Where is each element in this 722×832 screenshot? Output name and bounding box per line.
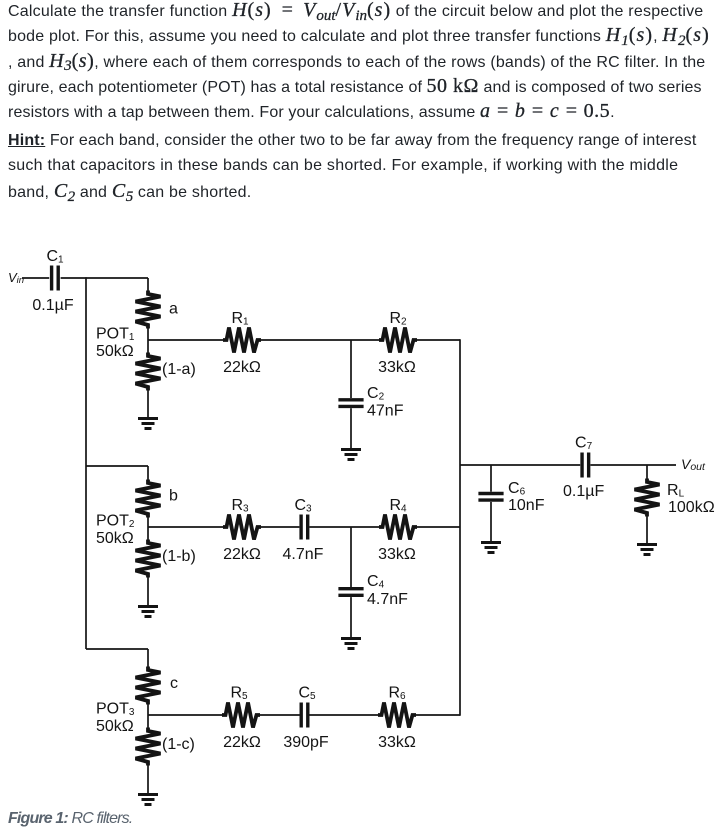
svg-text:33kΩ: 33kΩ [378,734,416,751]
resistor R6 [378,703,416,728]
paragraph 1 line 2 [8,25,710,47]
svg-text:Vin: Vin [8,270,24,286]
wire R5 to C5 [259,714,300,716]
wire band3 tap to R5 [148,714,223,716]
resistor RL [635,479,660,517]
resistor R5 [222,703,260,728]
wire branch to POT2 [86,465,148,467]
wire bus to C7 [460,464,580,466]
svg-text:50kΩ: 50kΩ [96,530,134,547]
svg-text:50kΩ: 50kΩ [96,718,134,735]
wire C6 to ground [490,502,492,541]
wire C4 to ground [350,597,352,637]
wire POT2 top lead [147,466,149,480]
ground C2 [341,450,361,460]
svg-text:10nF: 10nF [508,497,545,514]
ground C4 [341,639,361,649]
resistor R1 [223,328,261,353]
svg-text:C2: C2 [367,385,385,403]
svg-text:a: a [169,301,178,318]
wire POT1 tap segment [147,328,149,353]
wire band1 tap to R1 [148,339,224,341]
svg-text:RL: RL [667,482,685,500]
svg-text:C4: C4 [367,573,385,591]
potentiometer POT2 lower section (1-b) [136,540,161,578]
svg-text:33kΩ: 33kΩ [378,359,416,376]
svg-text:(1-a): (1-a) [162,361,196,378]
svg-text:47nF: 47nF [367,403,404,420]
svg-text:Vout: Vout [681,456,706,473]
svg-text:0.1µF: 0.1µF [32,297,73,314]
resistor R4 [379,515,417,540]
wire right bus [459,339,461,716]
paragraph 1 line 4 [8,76,702,98]
potentiometer POT1 upper section (a) [136,291,161,329]
wire left bus [85,277,87,649]
svg-text:POT1: POT1 [96,326,135,344]
svg-text:C3: C3 [294,497,312,515]
svg-text:(1-c): (1-c) [162,736,195,753]
hint line 2 [8,156,678,176]
wire C7 to Vout [591,464,677,466]
wire R4 to right bus [416,526,460,528]
svg-text:33kΩ: 33kΩ [378,546,416,563]
wire POT1 top lead [147,278,149,291]
svg-text:0.1µF: 0.1µF [563,483,604,500]
svg-text:C7: C7 [575,435,593,453]
wire RL top lead [646,465,648,479]
wire branch to POT3 [86,648,148,650]
svg-text:R6: R6 [388,685,406,703]
ground POT1 [138,419,158,429]
svg-text:50kΩ: 50kΩ [96,343,134,360]
wire POT2 tap segment [147,517,149,540]
wire R3 to C3 [260,526,299,528]
svg-text:b: b [169,488,178,505]
capacitor C3 [301,515,308,540]
svg-text:22kΩ: 22kΩ [223,546,261,563]
svg-text:POT2: POT2 [96,513,135,531]
wire C4 branch [350,527,352,587]
paragraph 1 line 1 [8,0,703,22]
ground C6 [481,543,501,553]
svg-text:C5: C5 [298,685,316,703]
capacitor C6 [478,494,503,501]
svg-text:C6: C6 [508,480,526,498]
svg-text:R3: R3 [231,497,249,515]
wire C2 to ground [350,408,352,448]
wire C6 branch [490,465,492,492]
wire C3 to R4 (node C4) [309,526,380,528]
ground POT3 [138,795,158,805]
wire POT2 ground lead [147,577,149,605]
svg-text:POT3: POT3 [96,701,135,719]
svg-text:4.7nF: 4.7nF [367,591,408,608]
capacitor C4 [338,589,363,596]
wire POT3 top lead [147,649,149,667]
svg-text:R1: R1 [231,310,249,328]
svg-text:R5: R5 [230,685,248,703]
wire C1 to POT1 top (node after C1) [61,277,148,279]
wire POT3 ground lead [147,765,149,793]
figure caption [8,810,132,828]
wire POT1 ground lead [147,390,149,417]
svg-text:22kΩ: 22kΩ [223,734,261,751]
ground RL [637,545,657,555]
capacitor C2 [338,400,363,407]
svg-text:R2: R2 [389,310,407,328]
svg-text:R4: R4 [389,497,407,515]
svg-text:C1: C1 [46,248,64,266]
wire C2 branch [350,340,352,398]
paragraph 1 line 5 [8,101,615,123]
hint line 1 [8,131,696,151]
wire R6 to right bus [415,714,460,716]
paragraph 1 line 3 [8,51,705,73]
capacitor C1 [52,266,59,291]
resistor R2 [379,328,417,353]
svg-text:390pF: 390pF [283,734,329,751]
wire RL ground lead [646,517,648,544]
capacitor C5 [301,703,308,728]
circuit schematic [0,240,722,832]
resistor R3 [223,515,261,540]
svg-text:4.7nF: 4.7nF [283,546,324,563]
wire band2 tap to R3 [148,526,224,528]
wire POT3 tap segment [147,704,149,728]
potentiometer POT3 lower section (1-c) [136,728,161,766]
svg-text:(1-b): (1-b) [162,548,196,565]
wire Vin lead [22,277,49,279]
capacitor C7 [582,453,589,478]
potentiometer POT3 upper section (c) [136,667,161,705]
svg-text:100kΩ: 100kΩ [668,499,715,516]
svg-text:22kΩ: 22kΩ [223,359,261,376]
wire R2 to right bus [416,339,460,341]
wire C5 to R6 [310,714,380,716]
potentiometer POT2 upper section (b) [136,480,161,518]
wire R1 to R2 (node C2) [260,339,380,341]
potentiometer POT1 lower section (1-a) [136,353,161,391]
hint line 3 [8,181,251,203]
svg-text:c: c [170,675,178,692]
ground POT2 [138,607,158,617]
